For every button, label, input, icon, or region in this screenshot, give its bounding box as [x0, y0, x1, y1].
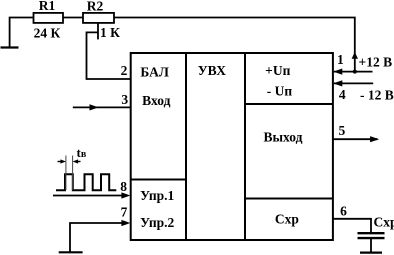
- junction dot at +12V riser: [353, 70, 357, 74]
- svg-text:4: 4: [339, 87, 346, 102]
- svg-text:Выход: Выход: [264, 130, 303, 145]
- svg-text:+Uп: +Uп: [265, 63, 290, 78]
- svg-text:- Uп: - Uп: [267, 84, 293, 99]
- arrowhead at pin 1 (+12V into box): [333, 69, 342, 75]
- wire: input to pin 3: [73, 106, 131, 108]
- tв dimension extension line left: [65, 156, 67, 191]
- wire: R2 tap to pin 2: [87, 32, 131, 79]
- wire: +12V supply to pin 1: [334, 71, 373, 73]
- svg-text:R2: R2: [87, 0, 104, 14]
- wire: pulse source to pin 8: [53, 195, 127, 197]
- ground GND1: [1, 46, 19, 48]
- svg-text:БАЛ: БАЛ: [140, 65, 169, 80]
- capacitor Cхр bottom plate: [358, 237, 385, 239]
- svg-text:Упр.1: Упр.1: [140, 188, 174, 203]
- wire: R1 to R2: [63, 17, 83, 19]
- U1 divider: УВХ / right column: [244, 53, 246, 240]
- svg-text:1: 1: [337, 52, 344, 67]
- ground GND3: [360, 252, 382, 254]
- wire: capacitor to ground: [370, 239, 372, 253]
- svg-text:1 К: 1 К: [100, 25, 120, 40]
- op-amp block U1 (sample-hold IC) outline: [131, 53, 333, 240]
- arrowhead up on +12V riser: [352, 52, 358, 59]
- wire: pin 6 to hold capacitor: [333, 219, 371, 233]
- capacitor Cхр top plate: [358, 232, 385, 234]
- wire: ground to pin 7: [70, 223, 127, 252]
- tв dimension arrowhead right: [73, 159, 79, 163]
- svg-text:24 К: 24 К: [34, 26, 61, 41]
- resistor R2: [83, 13, 114, 23]
- U1 divider: right column below -Uп: [245, 103, 333, 105]
- wire: R2 to +12V riser (top rail): [114, 18, 355, 72]
- resistor R1: [34, 13, 64, 23]
- R2 tap stub: [97, 23, 99, 40]
- svg-text:- 12 В: - 12 В: [360, 88, 394, 103]
- U1 divider: right column above Схр: [245, 198, 333, 200]
- svg-text:8: 8: [120, 179, 127, 194]
- svg-text:Вход: Вход: [142, 93, 170, 108]
- U1 divider: left column / УВХ: [185, 53, 187, 240]
- ground GND2: [59, 251, 83, 253]
- arrowhead at pin 7: [121, 220, 130, 226]
- svg-text:2: 2: [121, 63, 128, 78]
- svg-text:7: 7: [121, 205, 128, 220]
- wire: ground to R1: [10, 18, 34, 48]
- arrowhead on input wire (pin 3): [90, 104, 99, 110]
- svg-text:tв: tв: [77, 145, 87, 160]
- svg-text:3: 3: [121, 92, 128, 107]
- tв dimension arrow right shaft: [76, 161, 81, 163]
- svg-text:Cхр: Cхр: [374, 215, 394, 230]
- arrowhead at pin 4 (-12V into box): [333, 80, 342, 86]
- svg-text:R1: R1: [39, 0, 56, 13]
- svg-text:УВХ: УВХ: [198, 63, 227, 78]
- arrowhead on output wire pin 5: [370, 136, 379, 142]
- U1 divider: left column horizontal: [131, 179, 186, 181]
- svg-text:Схр: Схр: [275, 211, 299, 226]
- wire: pin 5 output: [333, 138, 378, 140]
- svg-text:Упр.2: Упр.2: [140, 215, 174, 230]
- control waveform: [56, 174, 116, 190]
- svg-text:5: 5: [339, 123, 346, 138]
- wire: -12V supply to pin 4: [334, 82, 373, 84]
- svg-text:6: 6: [340, 203, 347, 218]
- tв dimension extension line right: [72, 156, 74, 191]
- arrowhead at pin 8: [121, 192, 130, 198]
- tв dimension arrowhead left: [60, 159, 66, 163]
- svg-text:+12 В: +12 В: [359, 55, 393, 70]
- tв dimension arrow left shaft: [58, 161, 64, 163]
